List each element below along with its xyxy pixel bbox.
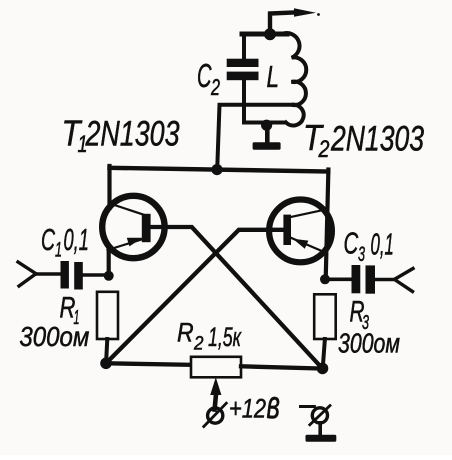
ground (tank) xyxy=(253,125,281,150)
inductor L xyxy=(282,33,306,125)
resistor R2 xyxy=(191,357,241,378)
wire: bottom rail right xyxy=(241,366,323,368)
power terminal +12v xyxy=(204,377,227,426)
svg-text:в: в xyxy=(267,383,281,427)
svg-text:1: 1 xyxy=(55,239,62,262)
svg-text:R: R xyxy=(177,318,194,348)
label R3 xyxy=(350,296,370,334)
terminal: minus xyxy=(301,406,331,436)
wire: bottom rail left xyxy=(106,363,192,365)
svg-text:2: 2 xyxy=(318,136,330,163)
transistor T1 xyxy=(102,196,164,258)
label +12v xyxy=(229,383,280,427)
svg-text:2N1303: 2N1303 xyxy=(330,120,424,159)
wire: tank top rail xyxy=(242,32,287,37)
terminal: output fork xyxy=(394,269,413,292)
wire: tank bottom xyxy=(244,121,285,125)
svg-text:300ом: 300ом xyxy=(338,328,400,359)
capacitor C1 xyxy=(35,261,109,290)
label C2 xyxy=(197,57,220,100)
node: top rail junction xyxy=(211,164,222,175)
node: bottom left junction xyxy=(100,358,112,370)
svg-text:2: 2 xyxy=(193,334,204,355)
node: tank top junction xyxy=(264,28,276,40)
label R2 1,5k xyxy=(177,318,242,355)
label R1 xyxy=(60,292,80,329)
output arrow xyxy=(270,8,320,34)
svg-text:L: L xyxy=(267,59,280,94)
svg-text:+12: +12 xyxy=(229,394,266,424)
svg-text:2: 2 xyxy=(210,74,220,100)
label T1 2N1303 xyxy=(62,113,180,159)
label T2 2N1303 xyxy=(303,117,424,163)
node: T1 emitter junction xyxy=(104,271,114,281)
node: T2 emitter junction xyxy=(320,274,330,284)
wire: R1 to bottom rail xyxy=(106,339,107,364)
svg-text:3: 3 xyxy=(358,243,365,266)
svg-text:2N1303: 2N1303 xyxy=(85,115,180,154)
label C1 0,1 xyxy=(41,222,89,262)
ground (bottom right) xyxy=(306,435,337,442)
terminal: input fork xyxy=(18,262,36,286)
capacitor C3 xyxy=(325,265,394,294)
resistor R3 xyxy=(314,294,336,339)
svg-text:C: C xyxy=(41,222,55,257)
label C3 0,1 xyxy=(344,226,394,266)
node: bottom right junction xyxy=(317,363,329,375)
resistor R1 xyxy=(97,292,118,339)
wire: T1 emitter lead xyxy=(107,246,111,277)
wire: T2 collector riser xyxy=(326,170,329,280)
wire: T1 collector riser xyxy=(107,166,111,208)
svg-text:0,1: 0,1 xyxy=(371,227,394,262)
wire: T1 base cross-coupling xyxy=(151,227,323,369)
wire: tank tap to top rail xyxy=(217,105,292,170)
svg-text:C: C xyxy=(197,57,212,94)
svg-text:0,1: 0,1 xyxy=(64,222,89,257)
wire: R3 to bottom rail xyxy=(323,339,325,369)
wire: top rail xyxy=(110,168,329,172)
svg-text:1,5к: 1,5к xyxy=(208,322,242,352)
transistor T2 xyxy=(269,200,332,263)
svg-text:300ом: 300ом xyxy=(19,321,89,352)
wire: T2 base cross-coupling xyxy=(106,230,284,363)
node: tank bottom junction xyxy=(261,120,272,131)
svg-text:C: C xyxy=(344,226,359,261)
capacitor C2 xyxy=(227,34,259,123)
